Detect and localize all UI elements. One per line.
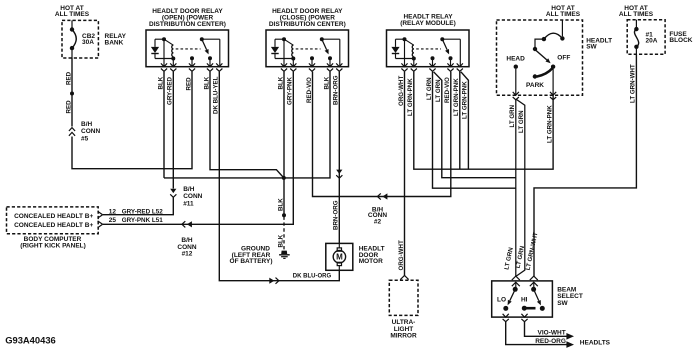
svg-text:#11: #11 — [183, 201, 194, 208]
pin wires inside K1 open — [163, 39, 165, 66]
wire LT GRN switch head 2 — [516, 99, 525, 276]
junction dot on RED — [70, 92, 74, 96]
relay contact common K1 open — [190, 56, 194, 60]
svg-text:BLK: BLK — [277, 76, 284, 89]
mirror entry arrow — [400, 276, 408, 280]
fuse #1 20A — [635, 20, 637, 27]
svg-text:RED: RED — [185, 77, 192, 91]
svg-text:BLOCK: BLOCK — [669, 37, 692, 44]
svg-text:(RIGHT KICK PANEL): (RIGHT KICK PANEL) — [20, 242, 86, 249]
svg-text:GRY-PNK: GRY-PNK — [287, 77, 294, 105]
svg-text:#12: #12 — [182, 251, 193, 258]
wire BLK to ground — [283, 178, 285, 214]
svg-text:LT GRN-PNK: LT GRN-PNK — [407, 78, 414, 116]
svg-text:12: 12 — [109, 209, 117, 216]
headlt switch dashed box — [497, 20, 583, 95]
svg-text:LT GRN-WHT: LT GRN-WHT — [630, 64, 637, 103]
relay coil K1 open — [155, 38, 164, 40]
svg-text:HEAD: HEAD — [506, 55, 525, 62]
svg-text:RED: RED — [65, 71, 72, 85]
svg-text:PARK: PARK — [526, 82, 544, 89]
svg-text:#5: #5 — [81, 135, 89, 142]
svg-text:LO: LO — [497, 297, 506, 304]
relay box K2 close — [266, 30, 349, 67]
svg-text:ALL TIMES: ALL TIMES — [619, 11, 654, 18]
svg-text:OF BATTERY): OF BATTERY) — [230, 258, 273, 265]
motor inner feed wires — [338, 243, 340, 248]
pin wires inside K3 module — [404, 39, 406, 66]
svg-text:BLK: BLK — [277, 198, 284, 211]
svg-text:LT GRN: LT GRN — [426, 77, 433, 100]
beam select box — [492, 281, 553, 317]
headlt door motor box — [326, 243, 353, 270]
svg-text:B/H: B/H — [81, 121, 93, 128]
wire RED run to relay K1 — [72, 72, 192, 169]
svg-text:BRN-ORG: BRN-ORG — [333, 75, 340, 105]
wire GRY-PNK relay2 to L51 — [103, 72, 293, 225]
svg-text:#2: #2 — [374, 218, 382, 225]
svg-text:DK BLU-ORG: DK BLU-ORG — [293, 273, 332, 279]
svg-text:CONCEALED HEADLT B+: CONCEALED HEADLT B+ — [14, 222, 93, 229]
pin exit arrows K3 module — [401, 63, 407, 66]
wire BLK relay1 pin4 with jog — [210, 72, 284, 178]
svg-text:(RELAY MODULE): (RELAY MODULE) — [400, 20, 456, 27]
wire BLK relay1 pin1 — [163, 72, 165, 178]
svg-text:M: M — [336, 253, 343, 262]
svg-text:ALL TIMES: ALL TIMES — [55, 11, 90, 18]
diode K1 open — [154, 39, 156, 47]
svg-text:SW: SW — [586, 44, 597, 51]
beam LO armature — [513, 287, 518, 292]
svg-text:LT GRN-PNK: LT GRN-PNK — [462, 81, 469, 119]
svg-text:RED-ORG: RED-ORG — [535, 338, 566, 345]
switch wiper arm — [536, 51, 547, 60]
body computer dashed box — [7, 207, 99, 234]
svg-text:LT GRN: LT GRN — [435, 79, 442, 102]
svg-text:DISTRIBUTION CENTER): DISTRIBUTION CENTER) — [269, 21, 346, 28]
beam entry arrows — [512, 276, 520, 280]
fuse block dashed box — [627, 20, 665, 55]
svg-text:BLK: BLK — [277, 234, 284, 247]
wire GRY-RED relay1 — [172, 72, 174, 189]
svg-text:BLK: BLK — [323, 76, 330, 89]
wire RED from CB2 — [71, 58, 73, 127]
switch breaker arc — [560, 36, 564, 40]
connector B/H CONN #5 — [69, 128, 75, 131]
ground symbol (left rear of battery) — [281, 251, 287, 254]
connector DK BLU-ORG >> — [269, 278, 274, 284]
wire LT GRN relay3 pin3 straight — [433, 72, 516, 189]
motor symbol M — [337, 248, 341, 251]
svg-text:ORG-WHT: ORG-WHT — [398, 240, 405, 270]
relay armature K2 close — [320, 37, 324, 41]
pin wires inside K2 close — [283, 39, 285, 66]
svg-text:G93A40436: G93A40436 — [5, 335, 56, 346]
svg-text:LT GRN: LT GRN — [518, 110, 525, 133]
pin exit arrows K2 close — [281, 63, 287, 66]
wire LT GRN-WHT from fuse — [534, 54, 636, 276]
svg-text:LT GRN-PNK: LT GRN-PNK — [453, 78, 460, 116]
relay coil K2 close — [275, 38, 284, 40]
relay link dashed K1 open — [176, 48, 201, 50]
relay pivot feed K1 open — [202, 38, 220, 40]
ultra light mirror dashed box — [389, 280, 418, 315]
svg-text:GRY-RED: GRY-RED — [167, 77, 174, 105]
svg-text:GRY-PNK L51: GRY-PNK L51 — [122, 217, 164, 224]
wire BLK dashed to ground — [283, 217, 285, 251]
svg-text:OFF: OFF — [557, 55, 570, 62]
relay box K1 open — [146, 30, 229, 67]
wire BRN-ORG relay2 to motor — [338, 72, 340, 244]
wire DK BLU-YEL — [219, 72, 339, 281]
svg-text:CONN: CONN — [183, 193, 202, 200]
wire LT GRN switch head 1 — [515, 99, 517, 276]
wire LT GRN relay3 pin3 branch — [434, 72, 516, 178]
svg-text:LT GRN-PNK: LT GRN-PNK — [546, 105, 553, 143]
relay armature K1 open — [200, 37, 204, 41]
relay link dashed K2 close — [296, 48, 321, 50]
svg-text:VIO-WHT: VIO-WHT — [538, 330, 566, 337]
svg-text:LT GRN: LT GRN — [509, 104, 516, 127]
wire ORG-WHT relay3 to mirror — [404, 72, 406, 276]
wire RED-ORG — [506, 322, 567, 345]
relay link dashed K3 module — [416, 48, 441, 50]
relay pivot feed K2 close — [322, 38, 340, 40]
svg-text:HI: HI — [521, 297, 528, 304]
svg-text:DISTRIBUTION CENTER): DISTRIBUTION CENTER) — [149, 21, 226, 28]
relay box K3 module — [387, 30, 470, 67]
wire GRY-RED to L52 row — [103, 197, 173, 214]
wire LT GRN-PNK relay3 pin5 straight — [459, 72, 461, 170]
switch HEAD output wire — [515, 69, 517, 95]
svg-text:BLK: BLK — [203, 76, 210, 89]
svg-text:CONN: CONN — [81, 128, 100, 135]
connector on BRN-ORG — [336, 170, 342, 174]
relay bank dashed box — [62, 20, 98, 58]
relay contact common K2 close — [310, 56, 314, 60]
svg-text:B/H: B/H — [183, 186, 195, 193]
wire LT GRN-PNK relay3 pin5 branch — [461, 72, 469, 169]
svg-text:RED: RED — [65, 100, 72, 114]
wire BLK bus horizontal — [164, 72, 330, 178]
circuit breaker CB2 30A — [71, 20, 73, 27]
relay contact common K3 module — [431, 56, 435, 60]
svg-text:BRN-ORG: BRN-ORG — [333, 200, 340, 230]
connector B/H CONN #2 << — [377, 193, 380, 199]
svg-text:25: 25 — [109, 217, 117, 224]
svg-text:DK BLU-YEL: DK BLU-YEL — [213, 76, 220, 114]
diode K3 module — [395, 39, 397, 47]
wire VIO-WHT — [525, 322, 568, 337]
wire RED-VIO B/H CONN #2 run — [313, 72, 451, 197]
junction dot BLK bus — [282, 176, 286, 180]
svg-text:20A: 20A — [646, 38, 658, 45]
connector B/H CONN #11 — [170, 189, 176, 193]
beam HI contact bar — [522, 306, 527, 311]
wire LT GRN-PNK relay3 pin2 — [414, 72, 553, 170]
svg-text:SW: SW — [557, 300, 568, 307]
switch PARK arc — [537, 68, 553, 77]
wire BLK relay2 pin1 — [283, 72, 285, 178]
switch OFF/PARK output wire — [552, 69, 554, 95]
svg-text:CONCEALED HEADLT B+: CONCEALED HEADLT B+ — [14, 213, 93, 220]
body computer exit chevron row1 — [98, 211, 103, 218]
diode K2 close — [274, 39, 276, 47]
svg-text:GRY-RED L52: GRY-RED L52 — [122, 209, 164, 216]
beam HI armature — [531, 287, 536, 292]
switch pivot branch — [535, 39, 544, 47]
svg-text:RED-VIO: RED-VIO — [306, 77, 313, 103]
switch exit arrows — [513, 92, 519, 95]
svg-text:RED-VIO: RED-VIO — [444, 77, 451, 103]
svg-text:BANK: BANK — [105, 39, 124, 46]
relay coil K3 module — [396, 38, 405, 40]
svg-text:MIRROR: MIRROR — [390, 333, 417, 340]
connector B/H CONN #12 << — [182, 221, 185, 227]
svg-text:HEADLTS: HEADLTS — [580, 340, 611, 347]
svg-text:ALL TIMES: ALL TIMES — [546, 11, 581, 18]
svg-text:30A: 30A — [82, 39, 94, 46]
svg-text:BLK: BLK — [157, 76, 164, 89]
relay pivot feed K3 module — [442, 38, 460, 40]
svg-text:MOTOR: MOTOR — [359, 258, 383, 265]
svg-text:ORG-WHT: ORG-WHT — [398, 76, 405, 106]
relay armature K3 module — [440, 37, 444, 41]
body computer exit chevron row2 — [98, 221, 103, 228]
pin exit arrows K1 open — [161, 63, 167, 66]
beam exit arrows — [503, 314, 509, 317]
switch feed wire — [561, 20, 563, 36]
